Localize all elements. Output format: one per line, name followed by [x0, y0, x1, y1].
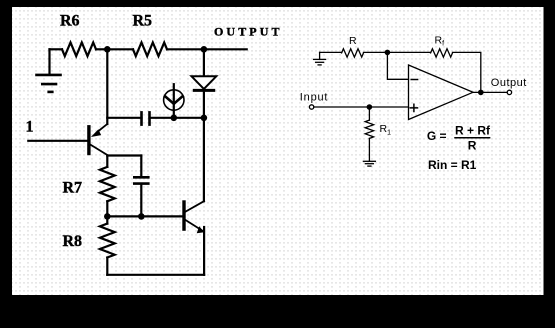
svg-text:OUTPUT: OUTPUT — [214, 25, 283, 39]
wire node to Rf — [387, 51, 430, 53]
wire R5 to node B — [167, 48, 204, 50]
wire inverting input — [387, 52, 408, 79]
wire R1 to ground — [368, 138, 370, 161]
wire OUTPUT stub — [204, 48, 247, 50]
svg-text:Input: Input — [300, 92, 328, 104]
wire input to op-amp + — [314, 106, 409, 108]
wire corner to capacitor C1 — [107, 117, 141, 119]
bottom rail wire — [107, 274, 204, 276]
wire Rf to output riser — [453, 52, 481, 92]
resistor R1 — [365, 120, 373, 138]
wire node A to R5 — [107, 48, 133, 50]
Q2 collector lead — [186, 201, 204, 211]
junction dot R7/R8 — [104, 213, 111, 220]
resistor R8 — [100, 224, 115, 258]
wire R6 to node A — [96, 48, 107, 50]
Q1 emitter arrow — [91, 129, 101, 137]
transistor Q2 (NPN) — [182, 200, 185, 231]
svg-text:1: 1 — [26, 119, 34, 136]
wire R8 top lead — [106, 216, 108, 223]
wire R to feedback node — [364, 51, 388, 53]
wire Q1 collector down to R7 — [106, 156, 108, 167]
junction dot under diode — [201, 115, 208, 122]
svg-text:R + Rf: R + Rf — [455, 124, 491, 138]
resistor R6 — [62, 43, 96, 57]
ground (op-amp left) — [319, 52, 321, 59]
svg-text:R5: R5 — [133, 13, 153, 30]
wire node A down to Q1 emitter corner — [106, 49, 108, 124]
output terminal — [507, 90, 511, 94]
op-amp U1 — [409, 65, 474, 120]
current source I1 — [164, 90, 184, 110]
feedback node dot — [385, 50, 391, 56]
Q2 emitter lead — [186, 220, 204, 232]
wire ground to R6 — [50, 48, 63, 50]
svg-text:G =: G = — [427, 129, 447, 143]
resistor R5 — [133, 43, 167, 57]
wire base node to Q2 — [107, 215, 182, 217]
svg-text:R: R — [349, 35, 357, 47]
wire Q1 collector corner right to C2 — [107, 154, 141, 156]
wire to diode node — [174, 117, 204, 119]
capacitor C2 plates — [134, 176, 148, 179]
svg-text:Rin = R1: Rin = R1 — [428, 158, 477, 172]
junction dot under current source — [171, 115, 178, 122]
node A junction dot — [104, 46, 111, 53]
capacitor C1 plates — [140, 112, 143, 124]
wire C1 to current source node — [150, 117, 174, 119]
diode D1 — [203, 49, 205, 76]
output node dot — [478, 90, 484, 96]
Q1 base wire from terminal 1 — [28, 140, 87, 142]
wire C2 top lead — [140, 156, 142, 178]
svg-text:R6: R6 — [60, 13, 80, 30]
wire R8 bottom to rail — [106, 258, 108, 275]
svg-text:R8: R8 — [63, 233, 83, 250]
wire ground to R — [320, 51, 342, 53]
minus sign — [411, 79, 417, 81]
transistor Q1 (PNP) — [87, 125, 90, 155]
wire diode node down to Q2 collector — [203, 118, 205, 201]
wire node to R1 — [368, 107, 370, 120]
wire C2 bottom lead — [140, 184, 142, 217]
wire R7 to base node — [106, 201, 108, 216]
node B junction dot — [201, 46, 208, 53]
svg-text:R7: R7 — [63, 179, 83, 196]
plus sign — [410, 104, 417, 111]
input terminal — [309, 105, 313, 109]
junction dot C2 bottom — [138, 213, 145, 220]
resistor R7 — [100, 167, 115, 201]
Q1 emitter lead (to node A riser) — [99, 124, 107, 130]
svg-text:Output: Output — [491, 77, 527, 89]
resistor Rf — [431, 49, 453, 57]
svg-text:R: R — [468, 139, 477, 153]
resistor R — [342, 49, 364, 57]
formula fraction bar — [455, 137, 490, 139]
Q2 emitter arrow — [197, 226, 205, 233]
wire op-amp output — [473, 91, 507, 93]
ground (top-left) — [48, 49, 50, 75]
wire Q2 emitter down to rail — [203, 227, 205, 275]
input node dot — [367, 104, 373, 110]
ground (below R1) — [363, 160, 375, 162]
Q1 collector lead — [90, 145, 107, 156]
